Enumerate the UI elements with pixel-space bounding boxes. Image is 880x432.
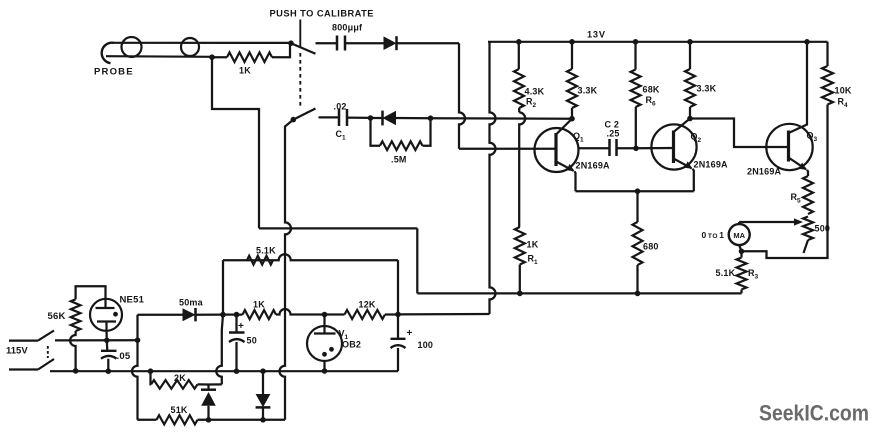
diode D3 triangle (384, 36, 397, 50)
tube OB2 dot 2 (329, 347, 334, 352)
resistor .5M loop right (423, 118, 431, 146)
diode D1 bar (201, 388, 216, 391)
resistor R1 bottom lead (519, 265, 521, 294)
resistor 4.3K R2 body (514, 69, 524, 108)
svg-text:MA: MA (733, 231, 745, 240)
calibrate pointer line (299, 20, 301, 49)
transistor Q2 collector lead (674, 119, 691, 133)
wire 13V rail (488, 41, 828, 43)
wire R3 to common rail (740, 290, 742, 294)
resistor 56K body (71, 299, 81, 331)
probe ring 1 (122, 37, 142, 57)
wire rail left end down (B) (490, 42, 496, 314)
probe hook (cable curl) (102, 43, 114, 64)
wire common rail corner (416, 228, 418, 293)
capacitor .05 plates (101, 351, 117, 359)
node rail 68K (633, 39, 639, 45)
node .05 AC2 (106, 368, 112, 374)
switch S1a pole (288, 40, 294, 46)
transistor Q3 circle (766, 124, 812, 170)
svg-text:12K: 12K (359, 300, 376, 310)
wire 5.1K row right down (397, 260, 399, 314)
resistor 3.3K b leads (689, 42, 691, 119)
svg-text:OB2: OB2 (342, 340, 361, 350)
node 56K AC2 (73, 368, 79, 374)
diode D3 bar (395, 36, 398, 50)
svg-text:51K: 51K (171, 405, 188, 415)
diode D4 triangle (383, 111, 397, 125)
svg-text:5.1K: 5.1K (716, 268, 736, 278)
resistor 68K R6 body (631, 70, 641, 108)
svg-text:1K: 1K (239, 66, 251, 76)
capacitor 50 bottom lead (235, 342, 237, 371)
pot wiper arrow (794, 218, 803, 225)
node Q1 collector (569, 116, 575, 122)
node D4-.5M (428, 115, 434, 121)
wire bottom row (137, 419, 285, 421)
diode D2 triangle (256, 394, 271, 407)
lamp NE51 bottom electrode (97, 322, 116, 331)
meter top lead (738, 222, 740, 224)
node R1 common rail (517, 291, 523, 297)
capacitor .05 top lead (106, 340, 109, 351)
node rail 4.3K (516, 39, 522, 45)
meter MA circle (729, 224, 750, 245)
wire R4 down-around to meter (742, 105, 828, 259)
switch S2a blade (38, 331, 54, 341)
resistor 56K bottom lead (70, 331, 76, 371)
wire D3 to corner A (397, 42, 460, 44)
svg-text:2N169A: 2N169A (747, 167, 782, 177)
svg-text:+: + (407, 328, 413, 339)
svg-text:50: 50 (247, 336, 257, 346)
diode 50ma triangle (183, 308, 196, 321)
svg-text:SeekIC.com: SeekIC.com (759, 401, 869, 426)
resistor 680 leads (636, 191, 638, 293)
svg-text:115V: 115V (6, 346, 28, 357)
capacitor 50 plates (229, 333, 245, 343)
wire rail corner to R4 (826, 42, 828, 66)
switch S1a blade (291, 43, 316, 54)
capacitor 50 top lead (235, 315, 237, 333)
probe body bottom line (106, 55, 212, 58)
node OB2 top (322, 312, 328, 318)
resistor 1K R1 body (515, 227, 525, 265)
svg-text:NE51: NE51 (120, 295, 145, 306)
node Q2 collector (687, 116, 693, 122)
diode D1 bottom lead (207, 406, 209, 420)
resistor 3.3K a body (567, 69, 577, 108)
resistor .5M loop left (371, 118, 381, 146)
tube OB2 circle (307, 326, 342, 361)
svg-text:2K: 2K (174, 373, 186, 383)
diode D4 bar (381, 111, 384, 126)
transistor Q1 emitter arrow (567, 164, 575, 171)
resistor 1K ps leads (237, 309, 325, 315)
wire B to supply node (398, 313, 490, 316)
svg-text:PUSH TO CALIBRATE: PUSH TO CALIBRATE (270, 9, 374, 19)
transistor Q2 base bar (672, 131, 675, 164)
svg-text:68K: 68K (643, 85, 660, 95)
lamp NE51 dot (113, 312, 118, 317)
svg-text:13V: 13V (587, 30, 606, 40)
resistor 3.3K b body (685, 69, 695, 107)
wire AC1 (55, 339, 138, 341)
transistor Q1 emitter lead (556, 162, 574, 171)
transistor Q3 collector lead (789, 42, 808, 133)
resistor 5.1K body (247, 256, 273, 265)
resistor 12K leads (325, 313, 399, 315)
pot 500 tail (804, 240, 809, 253)
resistor 1K (probe) body (227, 52, 272, 62)
wire Q1 to C2 (579, 147, 610, 149)
diode D2 bottom lead (262, 407, 264, 419)
wire S1b pole down to clamp row (280, 120, 294, 420)
switch S2b line (9, 368, 38, 370)
svg-text:56K: 56K (48, 311, 66, 322)
wire collector feed line (431, 117, 573, 120)
svg-text:3.3K: 3.3K (578, 86, 598, 96)
wire Q2 emitter down (693, 169, 694, 191)
wire Q1 emitter down (575, 171, 576, 191)
wire rect corner down (132, 315, 138, 420)
wire probe common (down-right-down) (212, 57, 259, 228)
wire divider vertical up (222, 260, 224, 314)
transistor Q2 emitter lead (674, 159, 692, 169)
node supply output (395, 312, 401, 318)
resistor 51K body (157, 415, 198, 424)
resistor 56K top route (76, 286, 106, 299)
svg-text:500: 500 (815, 224, 831, 234)
diode 50ma bar (194, 308, 197, 321)
node Q2 base (633, 146, 639, 152)
node meter bottom (739, 249, 745, 255)
svg-text:50ma: 50ma (179, 298, 204, 308)
wire common rail upper (259, 227, 417, 229)
lamp NE51 top electrode (96, 299, 115, 308)
wire divider vertical down (216, 315, 223, 385)
wire common rail lower (417, 292, 741, 294)
wire emitter row (576, 190, 694, 192)
transistor Q3 base bar (787, 131, 790, 162)
wire Q3 emitter down (807, 170, 808, 176)
diode D1 top lead (207, 385, 209, 390)
transistor Q2 circle (651, 124, 696, 169)
node C1-D4 (368, 115, 374, 121)
tube OB2 dot 1 (322, 352, 327, 357)
transistor Q1 circle (535, 128, 579, 172)
node C50 AC2 (234, 368, 240, 374)
calibrate dashed link (299, 53, 301, 106)
resistor 680 body (633, 222, 643, 265)
wire node to D4 (371, 117, 383, 119)
svg-text:1K: 1K (527, 240, 539, 250)
resistor 68K R6 leads (634, 42, 637, 149)
switch S2a line (9, 339, 38, 341)
node D2 bottom (260, 417, 266, 423)
transistor Q3 emitter lead (789, 158, 807, 170)
transistor Q1 base bar (554, 133, 557, 166)
resistor R3 top lead (740, 251, 742, 257)
svg-text:5.1K: 5.1K (256, 246, 276, 256)
svg-text:.25: .25 (607, 129, 620, 139)
switch S1b pole (291, 117, 297, 123)
svg-text:PROBE: PROBE (94, 67, 134, 78)
node 2K AC2 (148, 368, 154, 374)
transistor Q3 emitter arrow (799, 163, 807, 170)
resistor 3.3K a leads (571, 42, 573, 119)
wire rect row left (138, 314, 183, 316)
node probe junction (209, 54, 215, 60)
tube OB2 bottom lead (323, 361, 325, 371)
node D1 bottom (206, 417, 212, 423)
node 680 bottom (635, 291, 641, 297)
wire 4.3K down to R1 (519, 112, 525, 227)
wire AC2 (50, 370, 398, 372)
svg-text:.02: .02 (334, 102, 347, 112)
resistor 2K leads (151, 371, 210, 384)
capacitor C1 plates (339, 109, 347, 126)
diode D2 bar (256, 406, 271, 409)
capacitor 100 top lead (397, 314, 399, 338)
lamp NE51 circle (90, 299, 122, 331)
wire S1a to C800 (316, 42, 338, 44)
wire node to C50 (223, 313, 237, 315)
diode D1 triangle (201, 392, 216, 406)
resistor 2K right wire (209, 383, 222, 385)
resistor 10K R4 body (822, 66, 833, 104)
wire Q2 base lead (636, 147, 673, 150)
node 680 top (635, 188, 641, 194)
resistor 1K ps body (243, 310, 277, 319)
node D2 AC2 (260, 368, 266, 374)
svg-text:100: 100 (418, 340, 434, 350)
node divider top (220, 312, 226, 318)
capacitor C2 plates (610, 139, 617, 156)
svg-text:+: + (238, 321, 244, 332)
svg-text:2N169A: 2N169A (694, 160, 729, 170)
node rail 3.3K b (687, 39, 693, 45)
node rail Q3 (804, 39, 810, 45)
pot 500 body (803, 217, 813, 241)
capacitor .05 bottom lead (107, 359, 109, 372)
capacitor 100 bottom lead (397, 348, 399, 371)
node AC1 right end (135, 337, 141, 343)
switch S2b blade (38, 359, 54, 370)
resistor R5 body (803, 176, 813, 214)
svg-text:2N169A: 2N169A (576, 161, 611, 171)
node rail 3.3K a (569, 39, 575, 45)
svg-text:3.3K: 3.3K (697, 84, 717, 94)
resistor 1K (probe) leads (212, 44, 290, 57)
svg-text:10K: 10K (835, 86, 852, 96)
svg-text:680: 680 (643, 242, 659, 252)
probe body top line (112, 42, 290, 44)
resistor 2K body (151, 380, 197, 389)
tube OB2 anode (314, 315, 336, 334)
wire C1 to node (347, 116, 371, 119)
wire C800 to diode (345, 42, 384, 44)
transistor Q1 collector lead (556, 119, 572, 135)
svg-text:.05: .05 (117, 351, 131, 362)
lamp NE51 bottom lead (105, 331, 108, 341)
resistor 5.1K R3 body (737, 258, 747, 290)
node NE51 AC1 (104, 338, 110, 344)
resistor 4.3K R2 leads (518, 42, 521, 113)
wire D4 to node (396, 117, 431, 119)
svg-text:4.3K: 4.3K (525, 87, 545, 97)
pot wiper wire (739, 221, 795, 223)
switch link dashed (47, 346, 49, 358)
wire Q2 collector to Q3 base (690, 119, 789, 148)
capacitor 800uuf plates (337, 36, 345, 51)
wire S1b to C1 (319, 116, 340, 118)
resistor 12K body (345, 310, 385, 319)
svg-text:.5M: .5M (391, 155, 407, 165)
node OB2 AC2 (322, 368, 328, 374)
capacitor 100 plates (391, 339, 406, 348)
node C50 top (234, 312, 240, 318)
probe ring 2 (181, 38, 199, 56)
meter bottom lead (739, 245, 741, 251)
svg-text:1K: 1K (253, 300, 265, 310)
diode D2 top lead (262, 371, 264, 394)
wire 5.1K row (223, 254, 398, 260)
wire Q1 base line (459, 148, 556, 150)
switch S1b blade (293, 109, 315, 120)
wire A down to Q1 base line (459, 43, 465, 149)
resistor .5M body (380, 141, 422, 150)
wire C2 to Q2 base (617, 147, 637, 149)
transistor Q2 emitter arrow (685, 161, 693, 168)
svg-text:800μμf: 800μμf (332, 23, 363, 33)
wire 50ma to node (196, 313, 224, 315)
